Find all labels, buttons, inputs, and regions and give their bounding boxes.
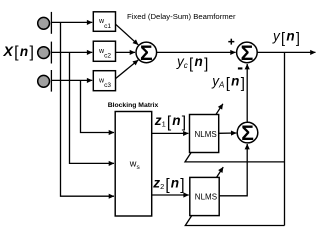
svg-text:NLMS: NLMS xyxy=(195,130,217,139)
svg-text:Σ: Σ xyxy=(241,122,254,145)
svg-text:y[n]: y[n] xyxy=(272,29,300,47)
svg-text:Σ: Σ xyxy=(140,42,153,65)
svg-text:Fixed (Delay-Sum) Beamformer: Fixed (Delay-Sum) Beamformer xyxy=(127,12,236,21)
svg-text:z2[n]: z2[n] xyxy=(152,176,184,194)
svg-text:Σ: Σ xyxy=(241,42,254,65)
svg-text:yc[n]: yc[n] xyxy=(176,54,208,72)
svg-text:X[n]: X[n] xyxy=(3,43,34,61)
svg-text:z1[n]: z1[n] xyxy=(154,113,186,131)
svg-text:yA[n]: yA[n] xyxy=(211,74,245,92)
svg-text:NLMS: NLMS xyxy=(195,193,217,202)
svg-text:Blocking Matrix: Blocking Matrix xyxy=(108,102,159,109)
